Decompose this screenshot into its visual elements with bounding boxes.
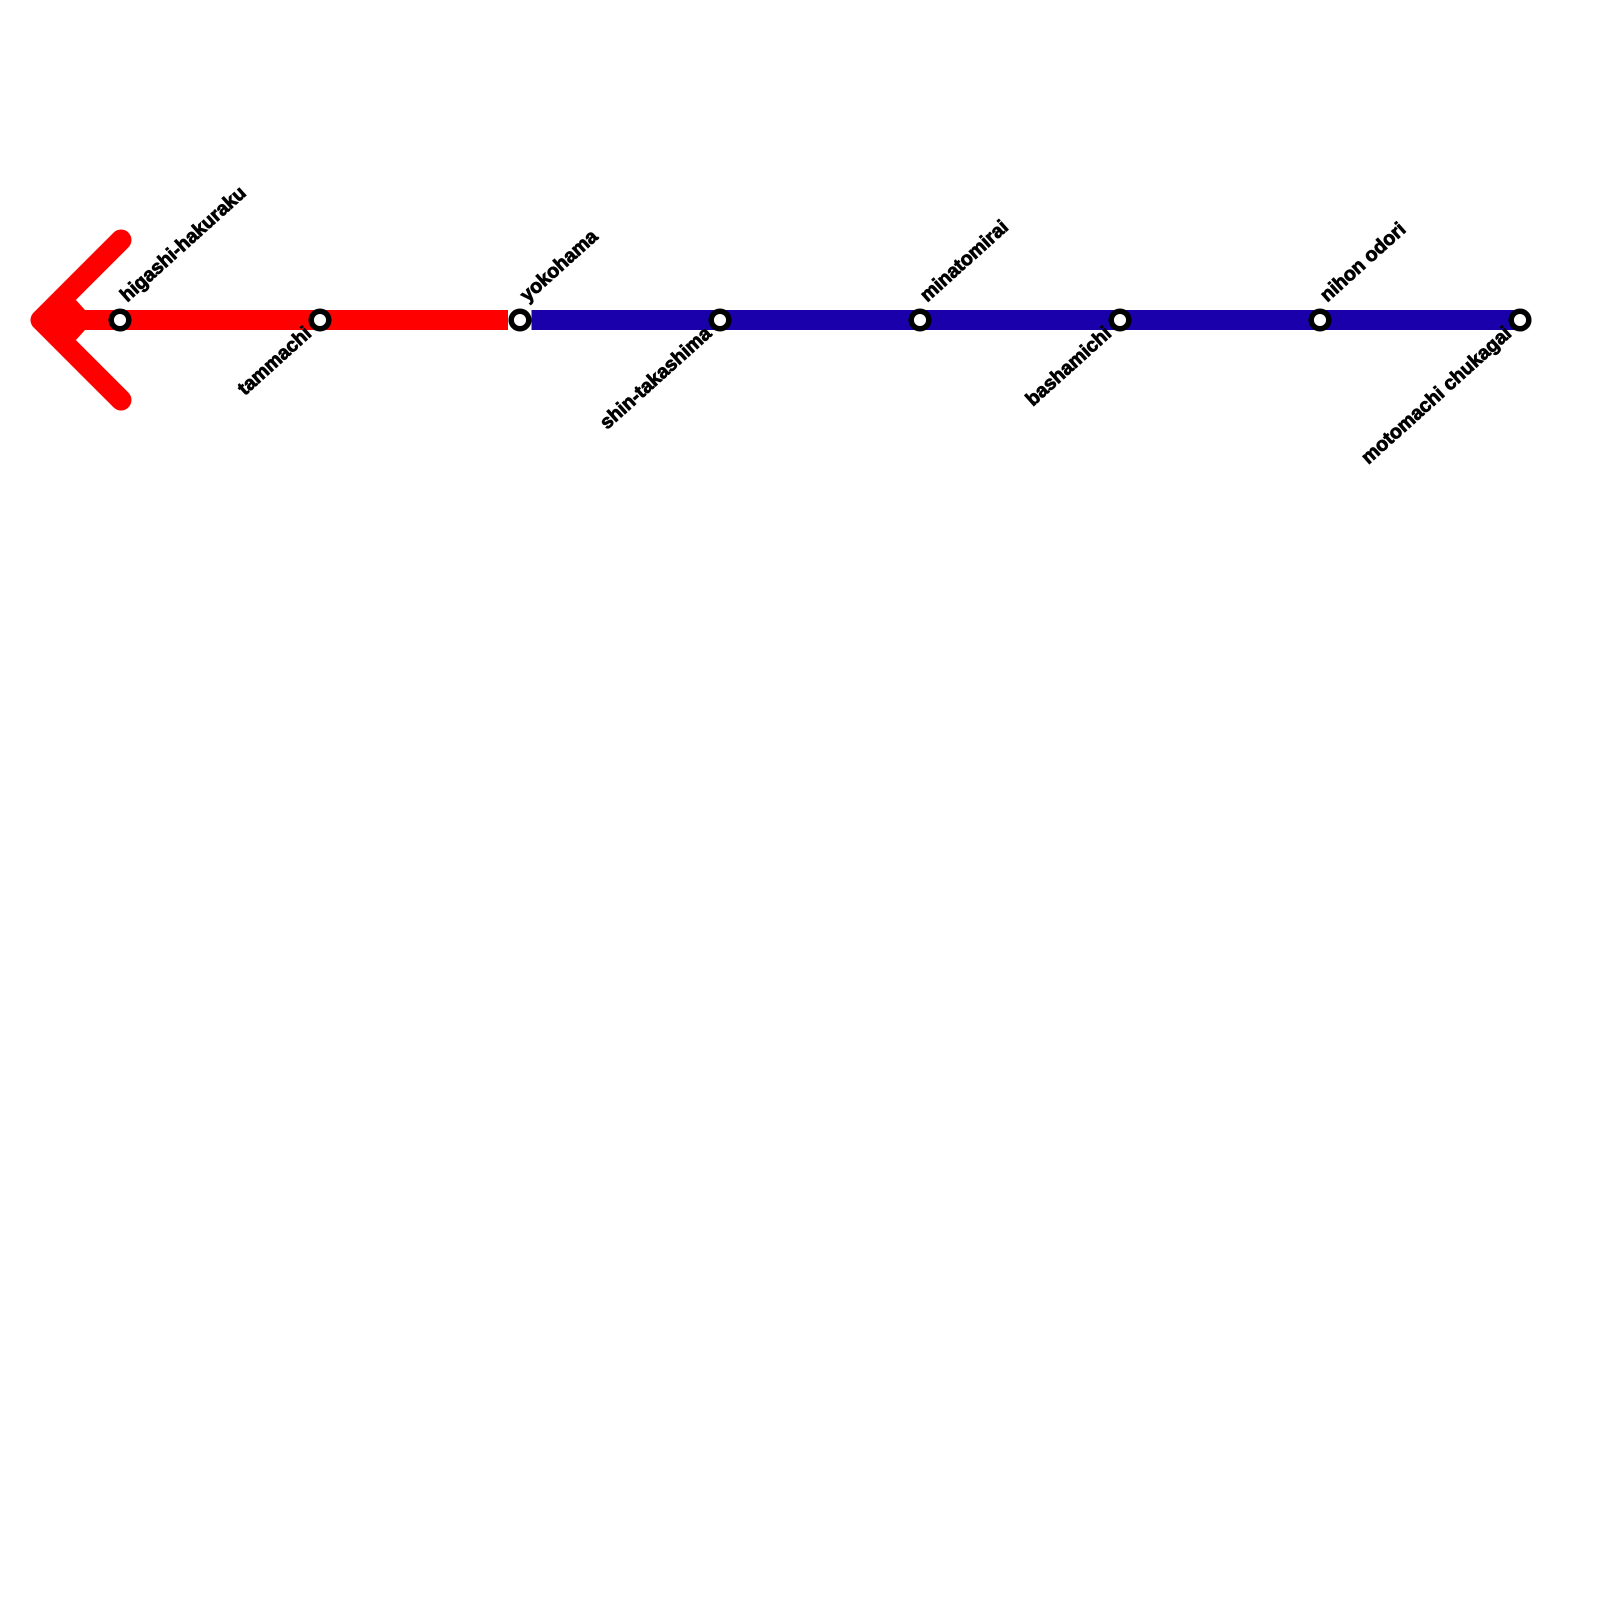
red line segment (higashi-hakuraku to yokohama) — [41, 310, 508, 330]
arrow head chevron — [41, 240, 121, 400]
station shin-takashima — [711, 311, 729, 329]
station yokohama — [511, 311, 529, 329]
station nihon odori — [1311, 311, 1329, 329]
arrow head fill wedge — [50, 300, 85, 340]
station minatomirai — [911, 311, 929, 329]
blue line segment (yokohama to motomachi chukagai) — [532, 310, 1521, 330]
station tammachi — [311, 311, 329, 329]
station motomachi chukagai — [1511, 311, 1529, 329]
station higashi-hakuraku — [111, 311, 129, 329]
station bashamichi — [1111, 311, 1129, 329]
